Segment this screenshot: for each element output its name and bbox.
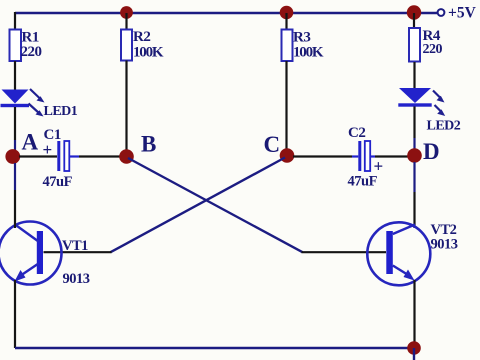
wire diagonal node B to VT2 base elbow (128, 158, 303, 252)
svg-text:B: B (141, 131, 156, 156)
svg-text:9013: 9013 (431, 237, 458, 253)
svg-text:LED1: LED1 (44, 104, 78, 119)
svg-text:100K: 100K (293, 45, 324, 61)
wire C2 blue stub left (352, 155, 358, 157)
wire C1 blue stub (69, 155, 79, 157)
wire stub below bottom junction (413, 348, 415, 360)
wire R1 to LED1 (14, 61, 16, 90)
junction dot bottom right (407, 341, 421, 355)
node B (119, 131, 156, 164)
wire C2 blue stub right (370, 155, 375, 157)
wire elbow to VT1 base (44, 251, 112, 253)
wire VT2 emitter to bottom junction (413, 280, 415, 348)
LED LED2 (398, 88, 460, 134)
wire rail to R4 (413, 13, 415, 28)
transistor VT1 (0, 222, 90, 288)
+5V terminal (438, 5, 477, 22)
capacitor C1 (43, 127, 73, 190)
wire bottom rail (15, 347, 414, 349)
svg-text:R3: R3 (293, 30, 310, 46)
svg-text:9013: 9013 (63, 271, 90, 287)
svg-text:C1: C1 (44, 127, 61, 143)
wire R3 to node C (285, 61, 287, 149)
wire diagonal node C to VT1 base elbow (111, 158, 286, 253)
wire VT1 emitter to bottom rail (14, 280, 16, 348)
svg-text:47uF: 47uF (43, 174, 73, 190)
svg-text:+5V: +5V (448, 5, 477, 22)
node C (264, 132, 295, 163)
wire R2 to node B (125, 61, 127, 151)
wire node A to VT1 collector (14, 163, 16, 190)
svg-text:LED2: LED2 (427, 119, 461, 134)
wire left vertical from rail to R1 (14, 12, 16, 30)
wire rail to R2 (125, 13, 127, 29)
svg-text:47uF: 47uF (348, 174, 378, 190)
wire C2 to node D (375, 155, 408, 157)
capacitor C2 (348, 125, 384, 190)
wire LED2 to node D (413, 107, 415, 139)
resistor R3 (282, 30, 324, 62)
svg-text:220: 220 (423, 42, 443, 57)
svg-text:R2: R2 (133, 29, 150, 45)
resistor R2 (121, 29, 164, 61)
junction dot R3 top (280, 6, 294, 20)
svg-text:VT1: VT1 (62, 238, 88, 254)
wire node D to VT2 (413, 162, 415, 192)
node D (407, 139, 439, 164)
svg-text:D: D (423, 139, 440, 164)
transistor VT2 (367, 222, 457, 285)
wire rail to R3 (285, 13, 287, 29)
resistor R4 (409, 28, 443, 62)
junction dot R2 top (120, 6, 133, 19)
junction dot R4 top (407, 5, 421, 19)
svg-text:A: A (22, 129, 39, 154)
node A (5, 129, 38, 164)
wire elbow to VT2 base (302, 251, 387, 253)
wire R4 to LED2 (413, 62, 415, 89)
svg-text:100K: 100K (133, 44, 164, 60)
svg-text:C2: C2 (348, 125, 365, 141)
wire node C to C2 (293, 155, 352, 157)
wire LED1 to node A (14, 107, 16, 140)
LED LED1 (1, 89, 78, 119)
svg-text:220: 220 (21, 44, 42, 60)
wire node A to C1 (19, 155, 57, 157)
resistor R1 (10, 30, 42, 62)
wire top +5V rail (15, 12, 437, 14)
wire C1 to node B (79, 155, 120, 157)
svg-text:C: C (264, 132, 281, 157)
